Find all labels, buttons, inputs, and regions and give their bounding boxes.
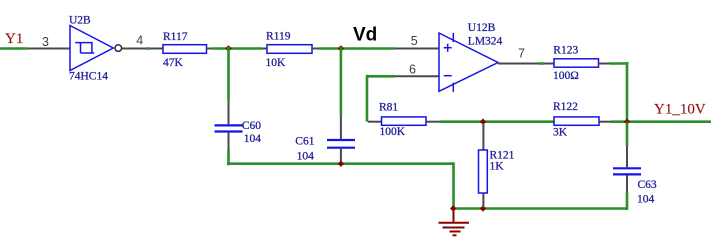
wire ground row — [454, 207, 628, 210]
wire row2 from R81 — [440, 120, 554, 123]
pin of R119 right — [312, 48, 319, 50]
junction node C61 bottom — [338, 161, 344, 167]
svg-text:C60: C60 — [242, 120, 261, 132]
capacitor C63 plates — [613, 168, 641, 174]
wire Y1 input — [0, 47, 28, 50]
pin 5 of U12B — [395, 48, 439, 50]
wire Vd node to pin5 — [341, 47, 395, 50]
wire C60 to bottom line — [227, 149, 230, 165]
wire vertical right rail upper — [626, 62, 629, 122]
svg-text:Y1_10V: Y1_10V — [654, 102, 706, 118]
svg-text:LM324: LM324 — [468, 35, 503, 47]
pin of R123 right — [599, 63, 611, 65]
capacitor C60 plates — [215, 125, 243, 131]
svg-text:4: 4 — [136, 34, 143, 48]
svg-text:U12B: U12B — [468, 22, 496, 34]
svg-text:100K: 100K — [380, 126, 406, 138]
pin of R121 top — [482, 123, 484, 150]
junction node ground corner — [450, 205, 456, 211]
wire C63 branch upper — [626, 122, 629, 146]
inverter U2B triangle — [70, 26, 113, 71]
pin of R123 left — [544, 63, 554, 65]
pin of R81 right — [426, 121, 440, 123]
svg-text:5: 5 — [411, 34, 418, 48]
resistor R121 body — [479, 150, 488, 193]
pin of R119 left — [262, 48, 267, 50]
wire row2 to right edge — [611, 120, 711, 123]
pin of R81 left — [368, 121, 382, 123]
pin of C60 bottom — [228, 133, 230, 150]
op-amp U12B triangle — [439, 33, 498, 91]
op-amp plus input — [444, 44, 452, 52]
wire bottom line — [227, 162, 454, 165]
pin of R122 right — [599, 121, 611, 123]
svg-text:R119: R119 — [266, 31, 291, 43]
hysteresis symbol — [75, 43, 94, 53]
pin of C61 bottom — [340, 149, 342, 164]
wire to Vd node — [319, 47, 341, 50]
svg-text:R122: R122 — [553, 101, 578, 113]
svg-text:R123: R123 — [553, 45, 578, 57]
svg-text:47K: 47K — [163, 57, 184, 69]
wire — [229, 47, 263, 50]
junction node Vd — [338, 45, 344, 51]
resistor R119 body — [267, 45, 312, 54]
svg-text:104: 104 — [637, 193, 655, 205]
svg-text:3: 3 — [42, 35, 49, 49]
pin of R121 bottom — [482, 194, 484, 208]
wire feedback vertical — [366, 75, 369, 122]
svg-text:7: 7 — [518, 46, 525, 60]
svg-text:Y1: Y1 — [5, 31, 23, 47]
op-amp power tick bottom — [452, 83, 454, 92]
svg-text:1K: 1K — [490, 160, 505, 172]
svg-text:R81: R81 — [379, 101, 398, 113]
svg-text:104: 104 — [244, 133, 261, 145]
wire — [146, 47, 150, 50]
wire — [539, 62, 544, 65]
junction node R81/R121/R122 — [480, 119, 486, 125]
pin of R117 — [150, 48, 164, 50]
pin of C63 top — [626, 146, 628, 167]
svg-text:104: 104 — [297, 150, 315, 162]
inverter output bubble — [115, 45, 122, 52]
resistor R123 body — [554, 59, 599, 67]
svg-text:R117: R117 — [163, 31, 188, 43]
pin of C61 top — [340, 115, 342, 139]
resistor R122 body — [554, 117, 599, 125]
op-amp minus input — [444, 75, 452, 77]
junction node output rail — [624, 119, 630, 125]
wire R123 to corner — [610, 62, 629, 65]
wire bottom corner down — [452, 162, 455, 208]
svg-text:Vd: Vd — [353, 24, 377, 45]
svg-text:74HC14: 74HC14 — [69, 71, 108, 83]
pin 3 of U2B — [28, 48, 70, 50]
op-amp power tick top — [452, 33, 454, 42]
wire C61 branch upper — [340, 47, 343, 115]
svg-text:C63: C63 — [638, 179, 657, 191]
ground symbol — [439, 209, 470, 236]
pin 4 of U2B — [122, 48, 146, 50]
svg-text:100Ω: 100Ω — [553, 70, 579, 82]
svg-text:U2B: U2B — [69, 14, 91, 26]
wire C60 branch upper — [227, 47, 230, 100]
resistor R117 body — [163, 45, 207, 54]
junction node R121 bottom — [480, 205, 486, 211]
pin 6 of U12B — [395, 75, 439, 77]
capacitor C61 plates — [327, 140, 355, 148]
wire — [212, 47, 229, 50]
pin of C60 top — [228, 100, 230, 124]
pin 7 of U12B — [498, 63, 539, 65]
pin of C63 bottom — [626, 175, 628, 191]
wire C63 to ground row — [626, 192, 629, 211]
resistor R81 body — [382, 117, 427, 125]
wire pin6 to feedback — [367, 75, 395, 78]
svg-text:C61: C61 — [295, 135, 314, 147]
junction node R117/R119/C60 — [225, 45, 231, 51]
svg-text:10K: 10K — [266, 57, 287, 69]
pin of R117 right — [207, 48, 213, 50]
svg-text:3K: 3K — [553, 127, 568, 139]
svg-text:6: 6 — [409, 63, 416, 77]
